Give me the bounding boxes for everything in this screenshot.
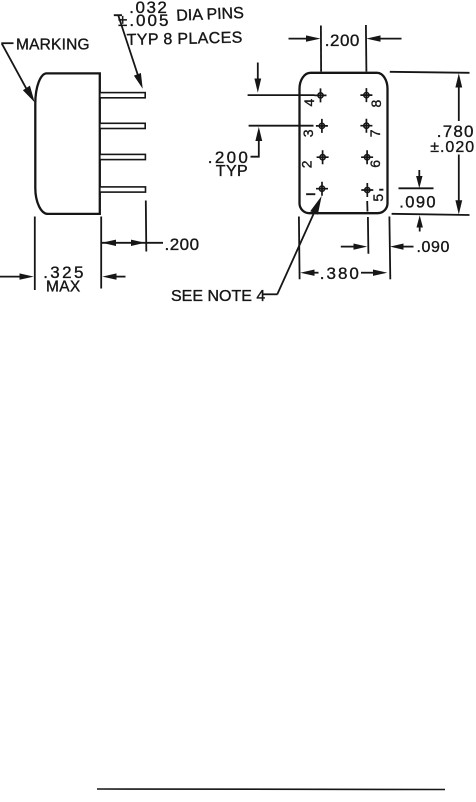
- dim .200 top right arrowhead: [366, 35, 380, 41]
- svg-text:.380: .380: [320, 264, 361, 283]
- leader see note stub: [263, 293, 278, 295]
- leader dia pins arrowhead: [134, 73, 143, 89]
- svg-text:SEE NOTE 4: SEE NOTE 4: [171, 288, 265, 305]
- bottom rule: [97, 788, 445, 791]
- dim .090a top arrowhead: [416, 176, 422, 188]
- pin cross 8: [360, 88, 372, 102]
- dim .200 pin length line: [102, 242, 163, 244]
- svg-text:TYP: TYP: [216, 163, 248, 180]
- extension line pin column 2 bottom: [367, 217, 370, 254]
- extension line right edge bottom: [388, 217, 391, 280]
- pin cross 1: [316, 182, 328, 196]
- dim .090a bottom arrow tail: [419, 227, 421, 232]
- extension line package left edge: [34, 217, 36, 291]
- row line pin 1-5 right extension: [399, 187, 434, 189]
- dim .200 pin length left arrowhead: [102, 240, 116, 246]
- extension line pin column 1 top: [320, 26, 322, 72]
- dim .200 typ down arrowhead: [254, 79, 261, 93]
- dim .325 left tail: [0, 276, 21, 278]
- extension line left edge bottom: [298, 217, 301, 280]
- pin 5 row stub: [379, 189, 383, 191]
- dim .780 top arrowhead: [455, 73, 462, 87]
- pin cross 4: [315, 88, 327, 102]
- row line pin 4: [248, 94, 315, 96]
- svg-text:±.020: ±.020: [430, 139, 475, 156]
- extension line .780 top: [390, 72, 470, 73]
- dim .090b left tail: [341, 246, 355, 248]
- pin side view 2: [100, 123, 145, 128]
- pin cross 3: [316, 119, 328, 133]
- dim .200 typ up arrow tail: [251, 140, 259, 157]
- svg-text:7: 7: [367, 129, 383, 137]
- leader see note line: [277, 213, 314, 295]
- dim .780 lower line: [458, 155, 460, 202]
- svg-text:±.005: ±.005: [118, 11, 170, 30]
- dim .780 upper line: [458, 86, 460, 121]
- leader MARKING line: [2, 44, 27, 91]
- package body side view: [35, 73, 100, 214]
- dim .780 bottom arrowhead: [455, 200, 462, 214]
- dim .380 left arrowhead: [300, 270, 314, 276]
- svg-text:8: 8: [368, 100, 384, 108]
- extension line pin column 2 top: [365, 25, 368, 72]
- svg-text:.090: .090: [417, 239, 451, 256]
- pin side view 3: [100, 154, 146, 159]
- svg-text:MARKING: MARKING: [16, 37, 90, 54]
- dim .200 typ up arrowhead: [255, 127, 262, 141]
- dim .200 typ down arrow tail: [257, 63, 259, 80]
- svg-text:.090: .090: [399, 194, 437, 212]
- pin side view 1: [100, 93, 145, 98]
- dim .090b left arrowhead: [354, 244, 368, 250]
- svg-text:4: 4: [301, 99, 317, 107]
- row line pin 3: [249, 125, 314, 127]
- extension line pin tip: [145, 201, 148, 252]
- dim .325 left arrowhead: [20, 273, 34, 279]
- pin cross 5: [361, 183, 373, 197]
- dim .090a bottom arrowhead: [417, 215, 423, 227]
- dim .090b right arrowhead: [390, 244, 404, 250]
- pin cross 2: [317, 150, 329, 164]
- leader see note arrowhead: [310, 196, 322, 215]
- svg-text:MAX: MAX: [46, 279, 81, 296]
- pin cross 6: [361, 150, 373, 164]
- svg-text:5: 5: [370, 194, 386, 202]
- dim .200 top left tail: [289, 38, 308, 40]
- dim .380 left line: [314, 272, 319, 274]
- dim .380 right arrowhead: [373, 270, 387, 276]
- svg-text:2: 2: [299, 160, 315, 168]
- extension line package right edge: [100, 217, 102, 289]
- svg-text:3: 3: [300, 129, 316, 137]
- extension line .780 bottom: [392, 214, 470, 215]
- dim .200 top left arrowhead: [306, 35, 321, 41]
- dim .090a top arrow tail: [418, 170, 420, 178]
- dim .200 top right tail: [380, 38, 402, 40]
- dim .325 right arrowhead: [102, 273, 116, 279]
- dim .325 right tail: [116, 276, 126, 278]
- svg-text:.200: .200: [325, 31, 360, 50]
- leader dia pins line: [114, 15, 138, 75]
- pin cross 7: [360, 119, 372, 133]
- svg-text:6: 6: [367, 160, 383, 168]
- dim .380 right line: [361, 272, 373, 274]
- leader MARKING arrowhead: [23, 86, 35, 103]
- package body bottom view: [300, 73, 388, 213]
- extension line pin column 2 bottom stub: [366, 201, 368, 212]
- svg-text:.200: .200: [165, 235, 200, 254]
- pin side view 4: [100, 187, 146, 192]
- dim .090b right tail: [403, 246, 414, 248]
- svg-text:TYP 8 PLACES: TYP 8 PLACES: [127, 30, 243, 49]
- pin number 1: [306, 193, 315, 195]
- svg-text:DIA PINS: DIA PINS: [176, 5, 244, 25]
- leader MARKING stub: [1, 42, 13, 44]
- dim .200 pin length right arrowhead: [131, 240, 145, 246]
